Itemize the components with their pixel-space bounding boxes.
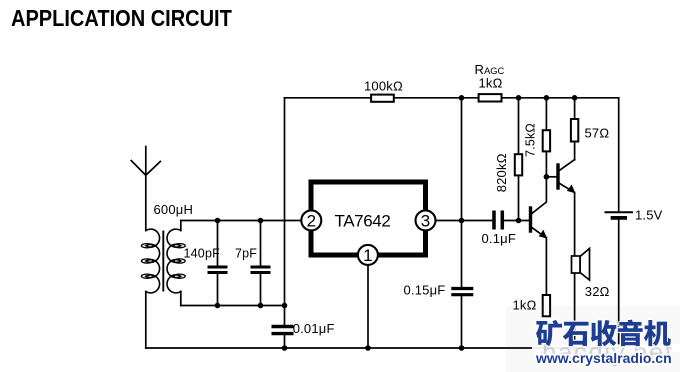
node Q2 base (544, 174, 550, 180)
resistor RAGC 1k (479, 94, 502, 101)
pin 1 circle (358, 245, 378, 265)
node Q1 base 820k (516, 218, 522, 224)
transistor Q1 base bar (529, 208, 532, 231)
pin 3 circle (416, 210, 436, 230)
wire 0.15uF branch vertical (461, 98, 463, 348)
transistor Q2 emitter (558, 183, 574, 193)
wire pin1 to bottom rail (367, 266, 369, 349)
svg-text:1.5V: 1.5V (635, 208, 663, 223)
wire bottom rail (146, 347, 619, 349)
node tank bottom 140p (215, 303, 221, 309)
node bottom rail x546 (544, 345, 550, 351)
pin 2 circle (301, 210, 321, 230)
node bottom rail x368 (365, 345, 371, 351)
svg-text:www.crystalradio.cn: www.crystalradio.cn (535, 350, 672, 366)
wire top rail (285, 97, 619, 99)
node tank top 140p (215, 218, 221, 224)
watermark background tint (506, 306, 680, 372)
svg-text:0.15μF: 0.15μF (404, 283, 446, 298)
wire 820k branch (518, 98, 520, 221)
capacitor 140pF plates (208, 267, 228, 273)
wire pin3 to 0.1uF (435, 220, 492, 222)
svg-text:600μH: 600μH (154, 202, 194, 217)
wire right rail with battery gap (618, 98, 620, 348)
svg-text:100kΩ: 100kΩ (364, 79, 403, 94)
watermark rail cover (532, 344, 680, 351)
transistor Q1 collector (531, 177, 547, 215)
wire Q2 emitter to speaker (574, 193, 576, 257)
svg-text:1kΩ: 1kΩ (479, 75, 503, 90)
transistor Q2 base bar (556, 165, 559, 188)
node top rail x518 (516, 95, 522, 101)
resistor 57 (571, 119, 578, 142)
transformer core (162, 232, 164, 291)
IC U1 TA7642 body (311, 182, 426, 255)
inductor L1 primary winding 600uH (146, 229, 160, 293)
wire 7.5k branch (545, 98, 547, 177)
node bottom rail x284 (282, 345, 288, 351)
transistor Q2 emitter arrow (567, 185, 576, 194)
capacitor 7pF plates (251, 267, 271, 273)
capacitor 140pF leads (217, 221, 219, 306)
capacitor 0.1uF plates (494, 211, 502, 230)
node pin3 branch (459, 218, 465, 224)
svg-text:2: 2 (307, 212, 316, 231)
svg-text:0.01μF: 0.01μF (293, 321, 335, 336)
wire tank bottom (181, 305, 285, 307)
resistor 7.5k (543, 130, 550, 151)
svg-text:820kΩ: 820kΩ (494, 153, 509, 192)
node top rail x546 (544, 95, 550, 101)
wire Q1 emitter to 1k (545, 238, 547, 296)
wire 57ohm branch (574, 98, 576, 160)
battery BT1 plates (606, 211, 633, 213)
svg-text:TA7642: TA7642 (335, 212, 391, 231)
node tank top 7p (258, 218, 264, 224)
antenna (131, 147, 160, 231)
watermark CJK logo (536, 320, 671, 347)
svg-text:0.1μF: 0.1μF (482, 231, 517, 246)
node top rail x462 (459, 95, 465, 101)
resistor 1k emitter (543, 295, 550, 316)
speaker SP 32ohm (572, 249, 590, 281)
transistor Q1 emitter (531, 227, 546, 238)
svg-text:7pF: 7pF (235, 247, 257, 261)
wire right winding stubs (180, 221, 182, 306)
node bottom rail x462 (459, 345, 465, 351)
title (11, 5, 232, 32)
wire tank top to pin 2 (181, 220, 303, 222)
transistor Q2 collector (558, 160, 575, 172)
resistor 100k (371, 95, 394, 102)
node tank bottom 0.01u (282, 303, 288, 309)
transistor Q1 emitter arrow (539, 230, 548, 239)
svg-text:57Ω: 57Ω (585, 126, 610, 141)
node bottom rail x575 (572, 345, 578, 351)
capacitor 0.15uF plates (451, 289, 473, 295)
wire 100k feedback vertical (284, 98, 286, 348)
inductor L2 secondary winding (167, 229, 181, 293)
svg-text:140pF: 140pF (184, 247, 221, 261)
wire 0.1uF to Q1 base (505, 220, 531, 222)
wire Q2 base (546, 176, 558, 178)
node top rail x575 (572, 95, 578, 101)
svg-text:3: 3 (421, 212, 430, 231)
wire left vertical below transformer (145, 292, 147, 349)
resistor 820k (515, 154, 522, 175)
capacitor 0.01uF plates (272, 327, 294, 334)
svg-text:7.5kΩ: 7.5kΩ (524, 123, 538, 157)
node tank bottom 7p (258, 303, 264, 309)
wire speaker to bottom rail (574, 273, 576, 348)
svg-text:32Ω: 32Ω (585, 284, 610, 299)
svg-text:1: 1 (363, 246, 372, 265)
capacitor 7pF leads (260, 221, 262, 306)
